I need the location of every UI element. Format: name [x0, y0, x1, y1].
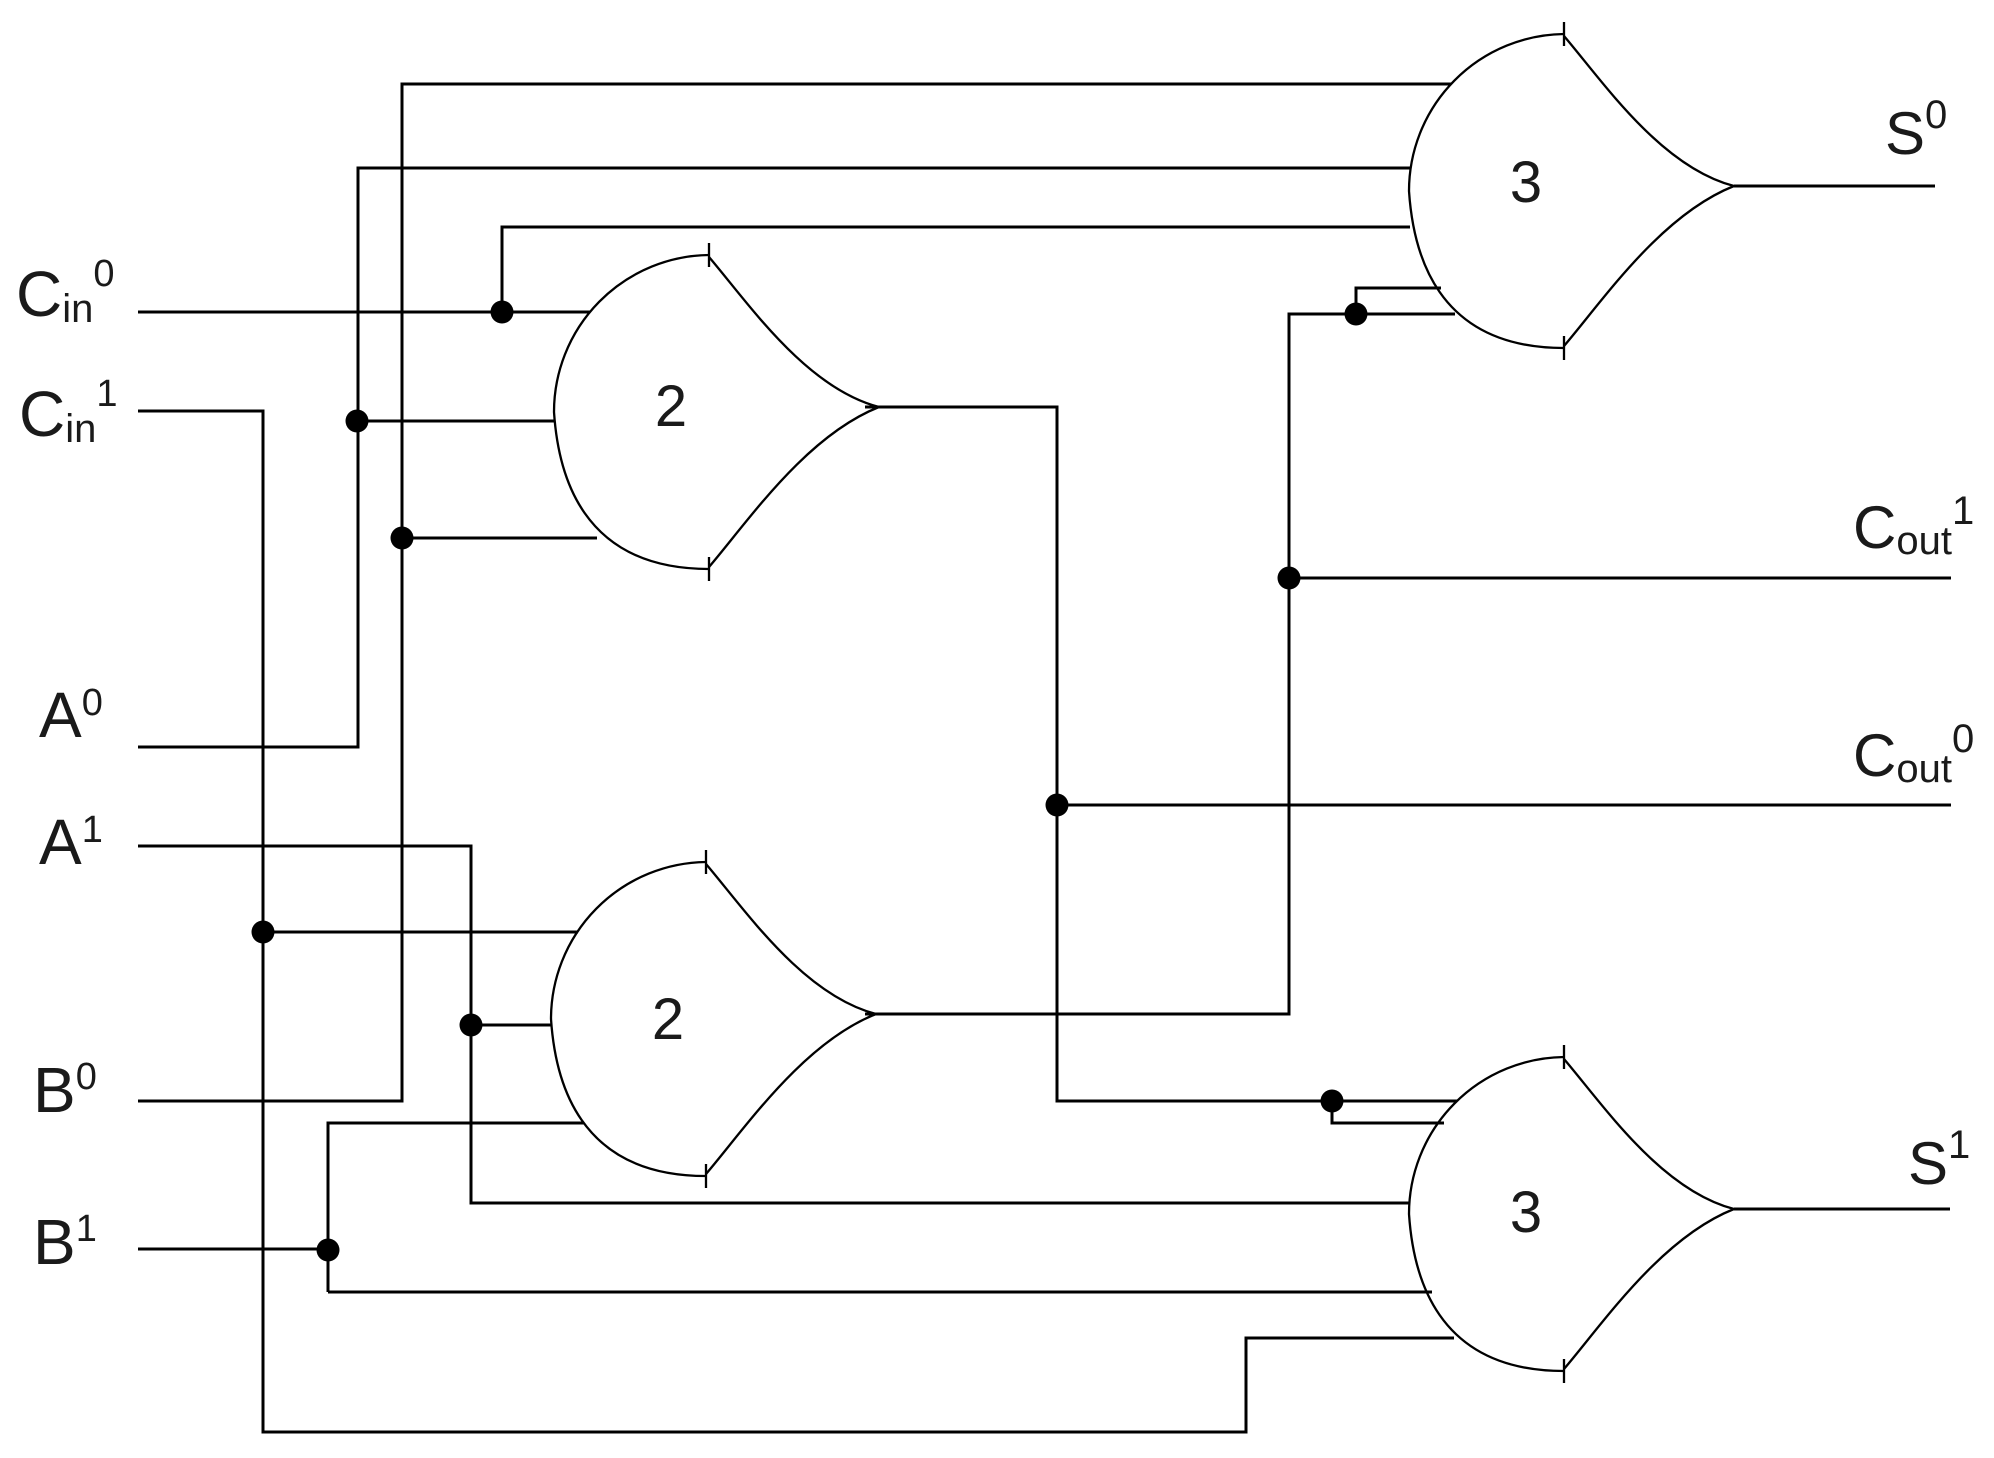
- svg-text:3: 3: [1510, 150, 1542, 215]
- svg-text:3: 3: [1510, 1180, 1542, 1245]
- svg-text:2: 2: [652, 987, 684, 1052]
- svg-text:2: 2: [655, 374, 687, 439]
